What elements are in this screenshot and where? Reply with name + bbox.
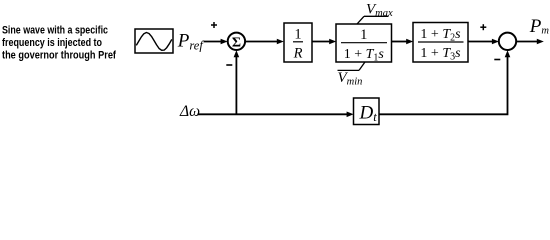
svg-text:Sine wave with a specific: Sine wave with a specific	[2, 25, 108, 37]
wire 1/R to governor block	[312, 41, 330, 43]
svg-text:Pm: Pm	[529, 16, 550, 37]
wire governor to compensator block	[392, 41, 408, 43]
summing junction S1	[228, 33, 245, 50]
minus sign at summer S2	[494, 59, 500, 61]
compensator block (1+T2s)/(1+T3s)	[413, 23, 468, 63]
wire S1 to block 1/R	[245, 41, 277, 43]
wire P_ref to summer S1	[204, 41, 222, 43]
limit label Vmin	[338, 69, 360, 71]
svg-text:1 + T3s: 1 + T3s	[420, 46, 461, 63]
minus sign at summer S1	[226, 64, 232, 66]
governor block 1/(1+T1s)	[336, 24, 392, 62]
block 1/R	[284, 23, 312, 62]
sine waveform	[136, 33, 172, 51]
wire compensator to summer S2	[468, 41, 493, 43]
sine-wave source box	[135, 29, 173, 53]
wire damping block to summer S2	[379, 54, 508, 115]
svg-text:1 + T1s: 1 + T1s	[344, 47, 385, 64]
svg-text:Δω: Δω	[179, 103, 200, 120]
svg-text:1: 1	[294, 27, 301, 43]
svg-text:1: 1	[360, 27, 367, 43]
svg-text:frequency is injected to: frequency is injected to	[2, 37, 102, 49]
svg-text:R: R	[293, 46, 303, 62]
svg-text:Pref: Pref	[177, 31, 205, 53]
feedback wire junction to summer S1	[235, 54, 237, 115]
wire S2 to output P_m	[516, 41, 537, 43]
damping block Dt	[354, 98, 380, 125]
svg-text:the governor through Pref: the governor through Pref	[2, 50, 116, 62]
plus sign at summer S2	[480, 24, 486, 30]
plus sign at summer S1	[211, 22, 217, 28]
svg-text:Σ: Σ	[232, 35, 241, 50]
svg-text:1 + T2s: 1 + T2s	[420, 27, 461, 44]
svg-text:Vmin: Vmin	[338, 70, 363, 88]
summing junction S2	[499, 33, 516, 50]
caption text	[2, 25, 116, 62]
wire delta-omega to damping block	[198, 113, 348, 115]
